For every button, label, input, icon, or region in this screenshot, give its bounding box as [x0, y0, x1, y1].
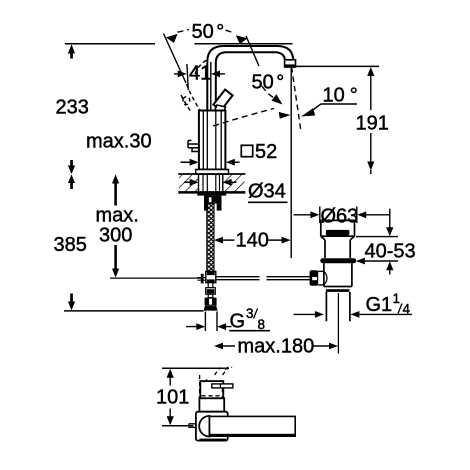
escutcheon base plate [196, 170, 229, 175]
spout and riser outline [207, 46, 293, 110]
waste neck [325, 240, 350, 258]
svg-text:10°: 10° [323, 85, 358, 107]
drain centerline extension [337, 293, 339, 354]
dimension G3/8 [186, 312, 232, 332]
svg-text:4: 4 [403, 302, 411, 317]
svg-text:8: 8 [258, 317, 266, 332]
dimension 233/385 arrows at x=71.5 [68, 44, 75, 310]
svg-text:300: 300 [99, 225, 132, 247]
dimension 40-53 [356, 209, 398, 275]
svg-text:max.30: max.30 [86, 131, 152, 153]
rod tee connector [198, 272, 216, 284]
side view: base bold bar [199, 439, 226, 441]
threaded rod with cross-hatch [207, 204, 214, 272]
side view: cartridge cap [200, 381, 223, 398]
mounting nut below counter [197, 193, 226, 211]
shank lines in hole [203, 175, 220, 192]
dimension 41 [174, 62, 225, 110]
pop-up rod knob (left of body) [188, 141, 199, 152]
50deg swivel arc (lower, dashed) with arrow [213, 86, 276, 126]
dimension 191 [367, 67, 374, 171]
top reference line [162, 367, 229, 369]
dimension 101 [167, 369, 174, 426]
waste body [324, 263, 352, 286]
dimension 140 [223, 67, 292, 259]
rod clamp block on waste [310, 270, 319, 286]
dashed rotated spout silhouette (left) [181, 60, 207, 113]
svg-text:40-53: 40-53 [365, 241, 416, 263]
bottom reference line [162, 425, 194, 427]
10deg label and leader [301, 108, 315, 116]
svg-text:Ø34: Ø34 [248, 181, 286, 203]
left slant extension line [164, 34, 187, 84]
svg-text:G1: G1 [366, 294, 393, 316]
dimension Ø63 [294, 207, 390, 224]
lever handle (front view) [213, 90, 232, 111]
10deg tilted outlet axis (dashed) [292, 67, 301, 130]
svg-text:52: 52 [255, 141, 277, 163]
dimension G1 1/4 [294, 313, 413, 315]
arrowhead onto left slant [166, 34, 178, 43]
counter cross-section with hatching [178, 174, 245, 192]
svg-text:3: 3 [246, 306, 254, 321]
pop-up waste flange [321, 220, 355, 240]
svg-text:191: 191 [356, 113, 389, 135]
50deg swivel dimension (top) [164, 30, 260, 83]
pull rod (horizontal) [110, 277, 310, 280]
svg-text:385: 385 [54, 234, 87, 256]
waste side inlet [318, 271, 324, 285]
side view: lever pivot bar [212, 384, 233, 388]
svg-text:140: 140 [236, 230, 269, 252]
right slant extension line [246, 36, 259, 66]
waste plug (dark) [326, 230, 350, 236]
dimension arrows for 52 (at body sides) [190, 159, 235, 166]
top reference line (tap height datum) [65, 43, 293, 45]
svg-text:1: 1 [393, 291, 401, 306]
dimension arrows Ø34 hole [190, 179, 232, 186]
O-ring seal [320, 258, 356, 263]
G3/8 connector stack below tee [204, 283, 218, 311]
side view: outer shell [196, 412, 228, 441]
svg-text:Ø63: Ø63 [321, 206, 359, 228]
svg-text:50°: 50° [252, 72, 285, 94]
lever base joint [215, 105, 226, 111]
side view: dashed hidden lines and swing marks [200, 367, 232, 398]
side view: lever bar [210, 416, 296, 436]
svg-text:41: 41 [189, 63, 211, 85]
side view: aerator nub [189, 424, 196, 428]
square 52 symbol and label [241, 145, 252, 156]
svg-text:max.180: max.180 [238, 336, 315, 358]
tailpipe [326, 292, 350, 321]
side view: spout nose (D-shape) [199, 416, 209, 437]
tailpipe shoulder (bold) [326, 289, 350, 292]
svg-text:101: 101 [156, 387, 189, 409]
arrowhead onto right slant [236, 35, 248, 44]
svg-text:G: G [230, 311, 246, 333]
side view: body [199, 398, 224, 411]
191 top reference line (outlet level) [296, 65, 379, 67]
dimension max.300 at x=115.6 [112, 174, 119, 277]
lower reference line (385 datum) [64, 310, 204, 312]
spout outlet tip [284, 60, 296, 68]
svg-text:max.: max. [96, 205, 139, 227]
svg-text:50°: 50° [192, 21, 225, 43]
faucet body (front view) [199, 111, 226, 170]
dimension max.180 [222, 345, 330, 347]
svg-text:233: 233 [56, 97, 89, 119]
